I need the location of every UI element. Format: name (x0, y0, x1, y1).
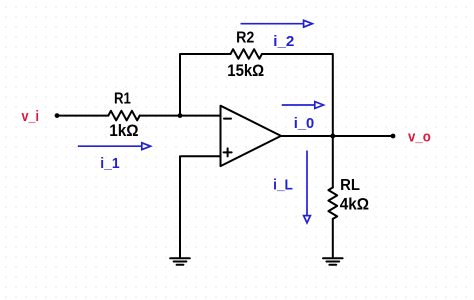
svg-text:v_i: v_i (21, 107, 39, 124)
svg-text:i_0: i_0 (294, 116, 314, 132)
svg-text:i_1: i_1 (100, 156, 119, 173)
svg-text:i_L: i_L (273, 177, 293, 194)
svg-text:R1: R1 (114, 90, 131, 107)
svg-text:v_o: v_o (408, 128, 431, 145)
svg-text:15kΩ: 15kΩ (227, 62, 264, 80)
svg-text:4kΩ: 4kΩ (340, 196, 370, 214)
svg-text:1kΩ: 1kΩ (109, 123, 139, 141)
svg-text:RL: RL (340, 177, 360, 194)
svg-text:i_2: i_2 (273, 33, 294, 50)
svg-text:R2: R2 (236, 30, 254, 47)
